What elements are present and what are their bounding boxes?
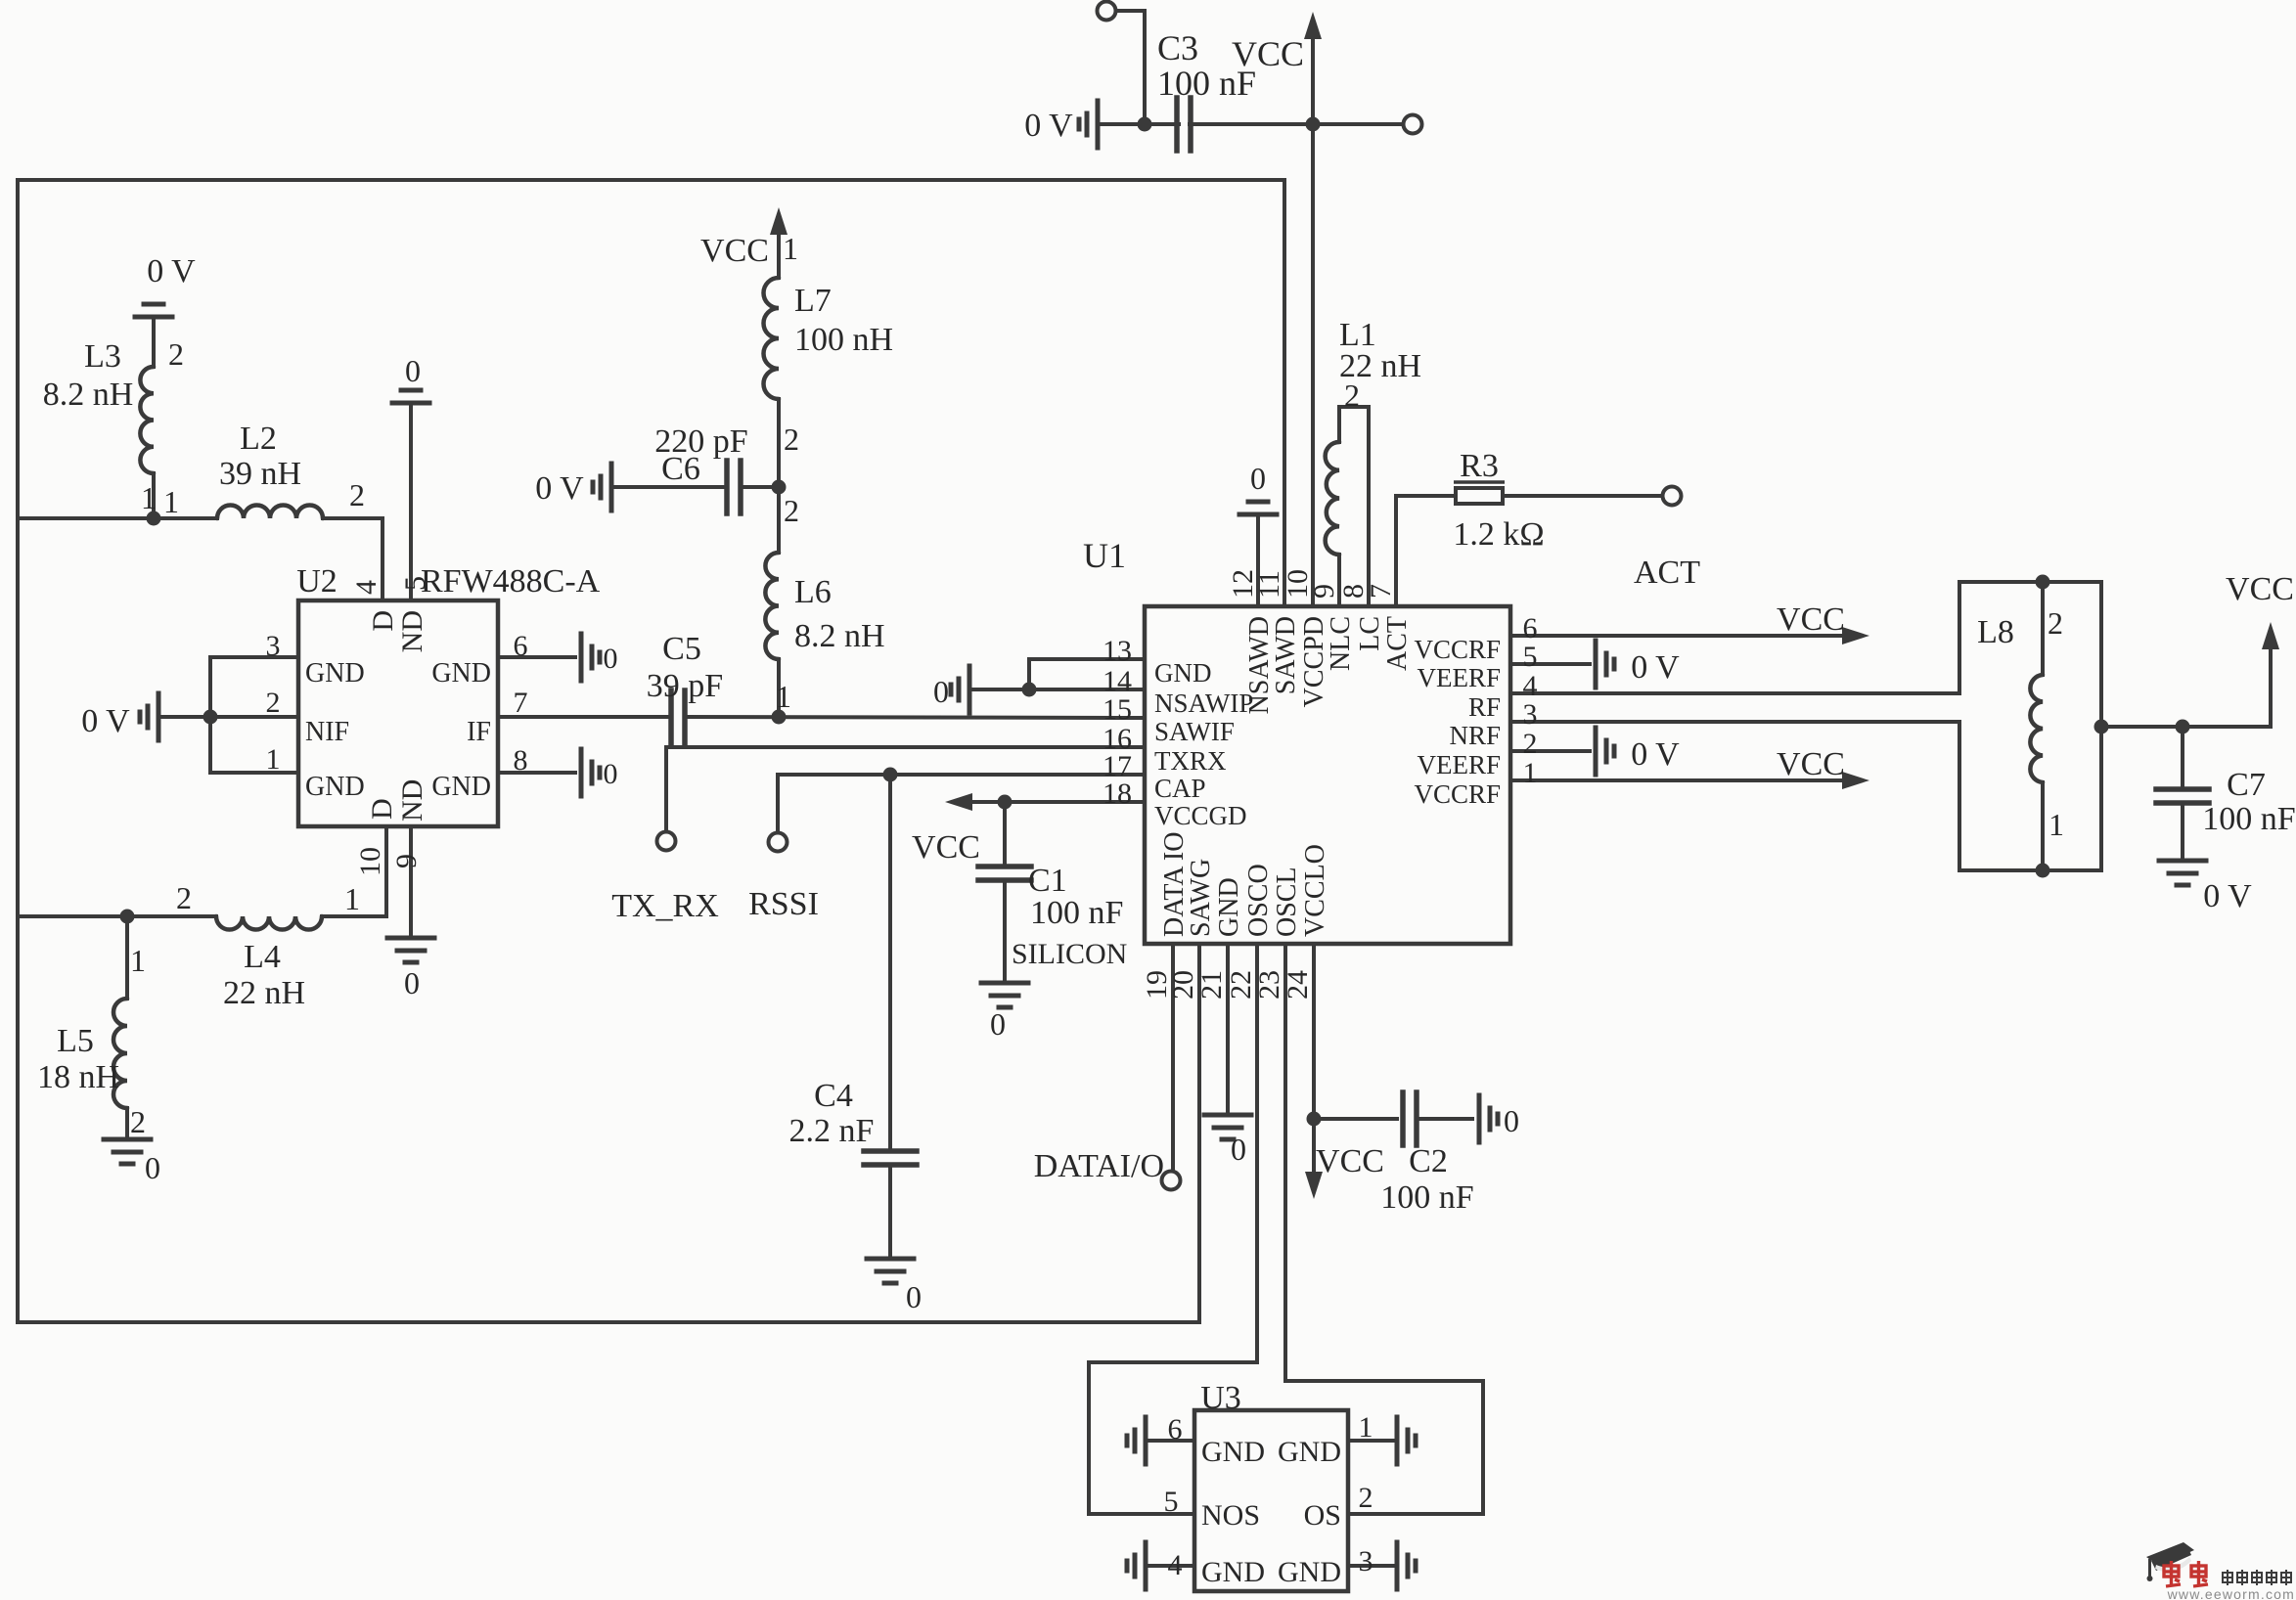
- svg-text:0: 0: [404, 965, 420, 1000]
- svg-text:C5: C5: [662, 631, 701, 667]
- svg-text:2: 2: [1523, 728, 1538, 760]
- svg-text:IF: IF: [467, 717, 491, 747]
- svg-text:2.2 nF: 2.2 nF: [789, 1113, 875, 1149]
- svg-text:L2: L2: [240, 421, 277, 457]
- svg-text:SAWIF: SAWIF: [1154, 717, 1235, 746]
- svg-text:VCC: VCC: [1232, 34, 1304, 73]
- svg-text:D: D: [366, 798, 398, 820]
- svg-text:0: 0: [145, 1150, 160, 1185]
- svg-text:L7: L7: [794, 283, 832, 319]
- svg-text:ACT: ACT: [1634, 555, 1700, 591]
- svg-text:0 V: 0 V: [1631, 649, 1680, 686]
- svg-text:NIF: NIF: [305, 717, 349, 747]
- svg-text:DATAI/O: DATAI/O: [1034, 1148, 1164, 1184]
- svg-text:RFW488C-A: RFW488C-A: [421, 563, 601, 600]
- svg-text:8.2 nH: 8.2 nH: [43, 377, 134, 413]
- svg-text:13: 13: [1103, 635, 1132, 667]
- svg-text:2: 2: [784, 493, 799, 528]
- svg-text:0: 0: [405, 353, 421, 388]
- svg-text:3: 3: [266, 630, 281, 662]
- svg-text:GND: GND: [1278, 1436, 1341, 1468]
- svg-text:0 V: 0 V: [535, 470, 584, 507]
- svg-text:TX_RX: TX_RX: [611, 888, 719, 924]
- svg-text:0 V: 0 V: [81, 703, 130, 739]
- svg-text:ND: ND: [396, 779, 428, 822]
- svg-text:1: 1: [783, 231, 798, 266]
- svg-text:1.2 kΩ: 1.2 kΩ: [1453, 516, 1544, 553]
- svg-text:100 nF: 100 nF: [1030, 895, 1123, 931]
- svg-text:U2: U2: [296, 563, 338, 600]
- svg-text:0: 0: [604, 643, 618, 675]
- svg-text:1: 1: [1359, 1411, 1373, 1444]
- svg-text:6: 6: [1168, 1413, 1183, 1445]
- svg-text:2: 2: [1359, 1482, 1373, 1514]
- svg-text:0 V: 0 V: [1631, 736, 1680, 773]
- svg-text:1: 1: [2048, 807, 2064, 842]
- svg-text:OSCL: OSCL: [1272, 867, 1302, 937]
- svg-text:2: 2: [2048, 605, 2063, 641]
- svg-text:1: 1: [344, 881, 360, 916]
- svg-text:0: 0: [933, 674, 949, 709]
- svg-text:RSSI: RSSI: [748, 886, 819, 922]
- svg-text:2: 2: [130, 1104, 146, 1139]
- svg-text:5: 5: [1164, 1486, 1179, 1518]
- svg-text:VCC: VCC: [700, 233, 769, 269]
- svg-text:0: 0: [604, 758, 618, 790]
- svg-text:0: 0: [1250, 461, 1266, 496]
- svg-text:VEERF: VEERF: [1417, 663, 1501, 692]
- svg-text:100 nF: 100 nF: [2202, 801, 2295, 837]
- svg-text:LC: LC: [1355, 616, 1385, 651]
- svg-text:5: 5: [399, 576, 431, 591]
- svg-text:100 nF: 100 nF: [1380, 1179, 1473, 1216]
- svg-text:VCC: VCC: [912, 829, 980, 866]
- svg-text:TXRX: TXRX: [1154, 746, 1227, 776]
- svg-text:www.eeworm.com: www.eeworm.com: [2167, 1586, 2295, 1600]
- svg-text:1: 1: [163, 484, 179, 519]
- svg-text:21: 21: [1195, 970, 1228, 1000]
- svg-text:GND: GND: [1201, 1436, 1265, 1468]
- svg-text:C4: C4: [814, 1078, 853, 1114]
- svg-text:1: 1: [266, 743, 281, 776]
- svg-text:VCCLO: VCCLO: [1300, 844, 1330, 937]
- svg-text:7: 7: [1365, 584, 1397, 599]
- svg-text:OS: OS: [1304, 1499, 1341, 1532]
- svg-text:L5: L5: [57, 1023, 94, 1059]
- svg-text:VCC: VCC: [1777, 746, 1845, 782]
- svg-text:U1: U1: [1083, 536, 1126, 575]
- svg-text:L3: L3: [84, 338, 121, 375]
- svg-text:0: 0: [990, 1006, 1006, 1042]
- svg-text:0 V: 0 V: [147, 253, 196, 289]
- svg-text:CAP: CAP: [1154, 774, 1206, 803]
- svg-text:NLC: NLC: [1326, 616, 1356, 671]
- svg-text:L6: L6: [794, 574, 832, 610]
- svg-text:2: 2: [266, 687, 281, 719]
- svg-text:GND: GND: [1278, 1556, 1341, 1588]
- svg-text:D: D: [367, 610, 399, 632]
- svg-text:R3: R3: [1460, 448, 1499, 484]
- svg-text:0: 0: [1231, 1132, 1246, 1167]
- svg-text:OSCO: OSCO: [1243, 864, 1274, 937]
- svg-text:1: 1: [776, 679, 791, 714]
- svg-text:GND: GND: [1214, 877, 1244, 937]
- svg-text:VCCRF: VCCRF: [1414, 635, 1501, 664]
- svg-text:8.2 nH: 8.2 nH: [794, 618, 885, 654]
- svg-text:GND: GND: [431, 658, 491, 689]
- svg-text:4: 4: [350, 580, 383, 595]
- svg-text:L4: L4: [244, 939, 281, 975]
- svg-text:2: 2: [784, 422, 799, 457]
- svg-text:C2: C2: [1409, 1143, 1448, 1179]
- svg-text:3: 3: [1359, 1545, 1373, 1578]
- svg-text:L8: L8: [1977, 614, 2014, 650]
- svg-text:VCC: VCC: [2226, 571, 2294, 607]
- svg-text:VEERF: VEERF: [1417, 750, 1501, 779]
- svg-text:7: 7: [514, 687, 528, 719]
- svg-text:4: 4: [1168, 1549, 1183, 1581]
- svg-text:VCCGD: VCCGD: [1154, 801, 1247, 830]
- svg-text:C6: C6: [661, 451, 700, 487]
- svg-text:0: 0: [1504, 1103, 1519, 1138]
- svg-text:VCC: VCC: [1777, 601, 1845, 638]
- svg-text:SAWD: SAWD: [1271, 616, 1301, 694]
- svg-text:39 nH: 39 nH: [219, 456, 301, 492]
- svg-text:SILICON: SILICON: [1012, 938, 1127, 970]
- svg-text:18 nH: 18 nH: [37, 1059, 119, 1095]
- svg-text:2: 2: [349, 477, 365, 512]
- svg-text:VCCRF: VCCRF: [1414, 779, 1501, 809]
- svg-text:15: 15: [1103, 693, 1132, 726]
- svg-text:GND: GND: [305, 658, 365, 689]
- svg-text:0: 0: [906, 1279, 922, 1314]
- svg-text:0 V: 0 V: [1024, 108, 1073, 144]
- svg-text:2: 2: [176, 880, 192, 915]
- svg-text:VCC: VCC: [1316, 1143, 1384, 1179]
- svg-text:NOS: NOS: [1201, 1499, 1260, 1532]
- svg-text:C3: C3: [1157, 28, 1198, 67]
- svg-text:ND: ND: [396, 610, 428, 652]
- svg-text:5: 5: [1523, 641, 1538, 673]
- svg-text:1: 1: [130, 943, 146, 978]
- svg-text:U3: U3: [1200, 1380, 1241, 1416]
- svg-text:100 nH: 100 nH: [794, 322, 893, 358]
- svg-text:22 nH: 22 nH: [223, 975, 305, 1011]
- svg-text:39 pF: 39 pF: [647, 668, 723, 704]
- svg-text:RF: RF: [1468, 692, 1501, 722]
- svg-text:SAWG: SAWG: [1186, 859, 1216, 937]
- svg-text:9: 9: [1308, 584, 1340, 599]
- svg-text:10: 10: [354, 847, 386, 876]
- svg-text:C1: C1: [1028, 863, 1067, 899]
- svg-text:C7: C7: [2227, 767, 2266, 803]
- svg-text:NSAWIP: NSAWIP: [1154, 689, 1253, 718]
- svg-text:9: 9: [390, 854, 423, 868]
- svg-text:8: 8: [514, 744, 528, 777]
- svg-text:ACT: ACT: [1382, 616, 1413, 671]
- svg-text:24: 24: [1282, 970, 1314, 1000]
- svg-text:GND: GND: [431, 772, 491, 802]
- svg-text:2: 2: [1344, 378, 1360, 413]
- svg-text:18: 18: [1103, 778, 1132, 810]
- svg-text:2: 2: [168, 336, 184, 372]
- svg-text:0 V: 0 V: [2203, 878, 2252, 914]
- svg-text:3: 3: [1523, 698, 1538, 731]
- svg-text:1: 1: [1523, 757, 1538, 789]
- svg-text:GND: GND: [305, 772, 365, 802]
- svg-text:GND: GND: [1154, 658, 1212, 688]
- svg-text:6: 6: [514, 630, 528, 662]
- svg-text:1: 1: [141, 480, 157, 515]
- svg-text:GND: GND: [1201, 1556, 1265, 1588]
- svg-text:NRF: NRF: [1449, 721, 1501, 750]
